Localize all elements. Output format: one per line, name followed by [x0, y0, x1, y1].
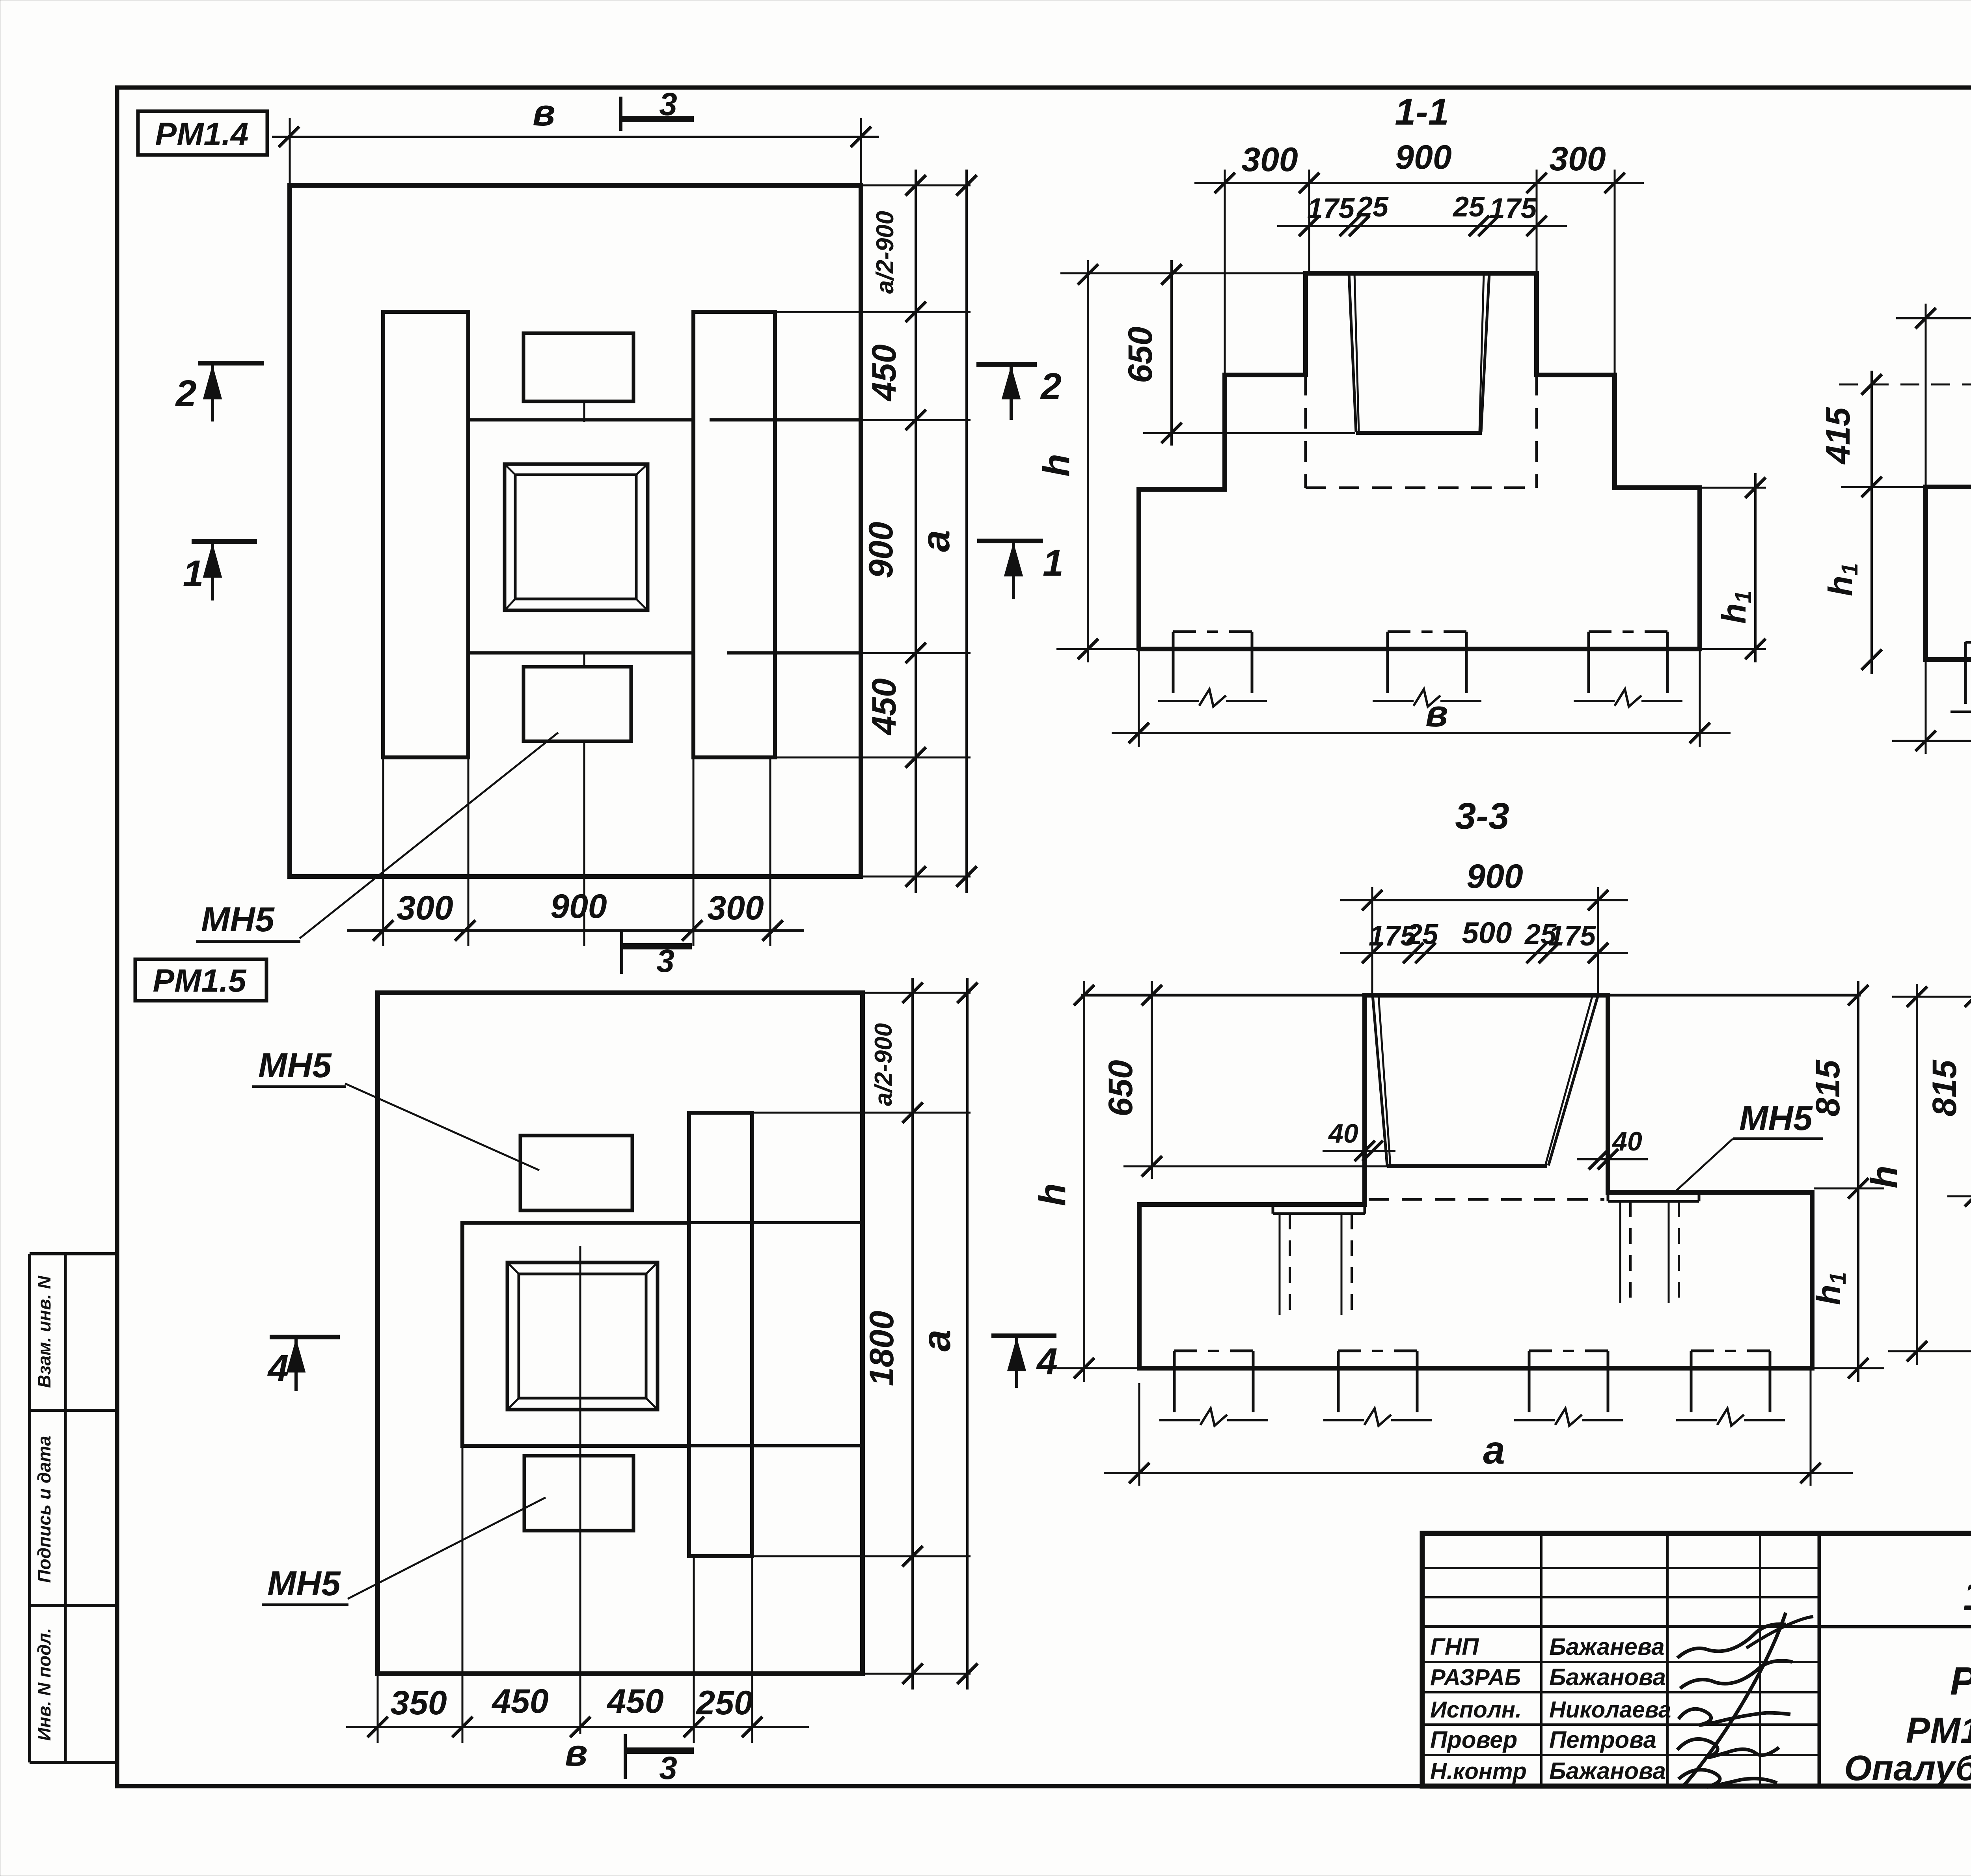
- svg-text:450: 450: [865, 344, 903, 402]
- svg-text:25: 25: [1406, 919, 1438, 950]
- svg-text:650: 650: [1102, 1060, 1140, 1117]
- plan PM1.5 upper embed plate MH5: [520, 1136, 632, 1210]
- plan PM1.4 middle band edges: [468, 420, 971, 653]
- section 3-3 title: [1455, 795, 1509, 837]
- section 3-3 hanging piles right: [1620, 1201, 1679, 1303]
- svg-text:250: 250: [695, 1684, 753, 1722]
- svg-text:РМ1.4: РМ1.4: [155, 116, 249, 152]
- left attribute strip: [30, 1254, 117, 1762]
- svg-text:900: 900: [862, 522, 900, 578]
- section 3-3 socket cavity: [1373, 995, 1598, 1166]
- svg-text:1.411 1-2/91.5м-8: 1.411 1-2/91.5м-8: [1963, 1572, 1971, 1619]
- svg-text:ГНП: ГНП: [1430, 1634, 1479, 1660]
- svg-text:25: 25: [1356, 191, 1389, 223]
- section 3-3 dim h: [1032, 981, 1139, 1382]
- svg-text:Бажанова: Бажанова: [1549, 1664, 1666, 1690]
- section 3-3 dim 175,25,500,25,175: [1340, 916, 1628, 963]
- section 1-1 dim b bottom: [1112, 651, 1731, 747]
- section 3-3 dim h1 right: [1810, 1188, 1884, 1382]
- svg-text:Исполн.: Исполн.: [1430, 1697, 1522, 1723]
- title block document number cell: [1819, 1572, 1971, 1627]
- svg-text:300: 300: [1549, 140, 1606, 178]
- dimension b top of PM1.4: [272, 92, 879, 185]
- section mark 1 right: [977, 541, 1064, 599]
- section 3-3 dim 40 left: [1323, 1119, 1395, 1161]
- svg-text:900: 900: [550, 888, 607, 925]
- section 1-1 pile heads: [1158, 632, 1682, 707]
- section 3-3 body outline: [1139, 995, 1812, 1368]
- section 1-1 body outline: [1139, 273, 1700, 649]
- section 3-3 embed plate MH5 left: [1273, 1205, 1365, 1214]
- section 4-4 dim h: [1863, 984, 1971, 1365]
- section 1-1 dim h1: [1701, 473, 1766, 662]
- svg-text:Провер: Провер: [1430, 1727, 1517, 1753]
- svg-text:Бажанева: Бажанева: [1549, 1634, 1665, 1660]
- section 3-3 hidden line: [1369, 1198, 1604, 1201]
- section mark 4 right: [991, 1336, 1058, 1388]
- MH5 label PM1.4: [196, 733, 558, 942]
- svg-text:450: 450: [606, 1682, 664, 1720]
- svg-text:h: h: [1032, 1183, 1073, 1206]
- section 2-2 dim 415: [1819, 371, 1971, 497]
- section 1-1 title: [1395, 91, 1449, 133]
- PM1.5 overall dimension a: [915, 978, 978, 1690]
- svg-text:450: 450: [491, 1682, 549, 1720]
- section 4-4 extension lines: [1892, 887, 1971, 1196]
- PM1.4 bottom dimension chain 300,900,300: [347, 759, 804, 946]
- section 3-3 dim 650: [1102, 981, 1387, 1179]
- svg-text:1-1: 1-1: [1395, 91, 1449, 133]
- section 2-2 pile heads: [1951, 642, 1971, 717]
- section 2-2 body outline: [1926, 384, 1971, 660]
- svg-text:МН5: МН5: [267, 1564, 341, 1603]
- plan PM1.4 left pile bar: [383, 312, 468, 757]
- svg-text:Ростверк: Ростверк: [1950, 1659, 1971, 1703]
- MH5 label section 3-3: [1676, 1098, 1823, 1191]
- MH5 label upper PM1.5: [252, 1046, 539, 1170]
- section 2-2 dim b bottom: [1892, 661, 1971, 754]
- svg-text:500: 500: [1462, 916, 1512, 950]
- svg-text:Опалубочный чертеж: Опалубочный чертеж: [1844, 1749, 1971, 1788]
- svg-text:40: 40: [1611, 1126, 1642, 1156]
- section mark 4 left: [267, 1337, 340, 1391]
- svg-text:3: 3: [659, 1750, 677, 1786]
- section 3-3 dim 900: [1340, 858, 1628, 910]
- title block signature table: [1422, 1533, 1819, 1786]
- section 3-3 dim a bottom: [1104, 1370, 1853, 1486]
- svg-text:h: h: [1036, 454, 1077, 477]
- section 1-1 extension lines: [1225, 170, 1615, 375]
- svg-text:300: 300: [397, 889, 453, 927]
- plan PM1.5 right pile bar: [689, 1113, 752, 1556]
- svg-text:2: 2: [1040, 366, 1062, 407]
- section 1-1 dim 650: [1121, 260, 1355, 446]
- section mark 2 right: [976, 364, 1062, 420]
- svg-text:a/2-900: a/2-900: [870, 1023, 897, 1106]
- svg-text:Подпись и дата: Подпись и дата: [34, 1436, 54, 1583]
- title block name cell: [1844, 1627, 1971, 1788]
- plan PM1.5 lower embed plate MH5: [524, 1456, 633, 1531]
- PM1.5 bottom dimension chain 350,450,450,250: [346, 1448, 809, 1743]
- svg-text:Николаева: Николаева: [1549, 1697, 1671, 1723]
- section 2-2 dim b/2: [1896, 282, 1971, 492]
- svg-text:МН5: МН5: [1739, 1098, 1813, 1138]
- section flag 3 top: [621, 86, 694, 131]
- section 3-3 extension lines top: [1081, 887, 1861, 995]
- svg-text:450: 450: [865, 678, 903, 736]
- section flag 3 bottom PM1.4: [622, 930, 692, 979]
- plan PM1.5 column socket: [507, 1262, 658, 1410]
- svg-text:3: 3: [656, 943, 674, 979]
- svg-text:a: a: [1483, 1428, 1505, 1472]
- section 4-4 dim 815: [1926, 984, 1971, 1208]
- svg-text:300: 300: [1241, 141, 1298, 179]
- section 2-2 dim h1: [1822, 487, 1926, 674]
- svg-text:4: 4: [267, 1347, 289, 1389]
- svg-text:в: в: [1425, 693, 1448, 735]
- svg-text:в: в: [533, 92, 555, 134]
- section 1-1 socket cavity: [1349, 273, 1489, 433]
- svg-text:a: a: [914, 530, 958, 552]
- svg-text:350: 350: [390, 1684, 447, 1722]
- svg-text:РМ1.5: РМ1.5: [153, 963, 247, 999]
- plan PM1.4 right pile bar: [693, 312, 775, 757]
- svg-text:Н.контр: Н.контр: [1430, 1759, 1527, 1784]
- PM1.5 right dimension chain a/2-900,1800: [754, 978, 971, 1690]
- plan PM1.4 column socket: [505, 464, 648, 610]
- section 1-1 dim 300,900,300: [1194, 138, 1644, 193]
- svg-text:Инв. N подл.: Инв. N подл.: [34, 1628, 54, 1741]
- PM1.4 right dimension chain a/2-900,450,900,450: [775, 170, 971, 893]
- svg-text:4: 4: [1036, 1341, 1058, 1382]
- svg-text:3-3: 3-3: [1455, 795, 1509, 837]
- svg-text:815: 815: [1926, 1059, 1964, 1117]
- section 1-1 dim h: [1036, 260, 1306, 662]
- svg-text:РАЗРАБ: РАЗРАБ: [1430, 1665, 1521, 1690]
- section 1-1 dim 175,25,25,175: [1277, 191, 1567, 236]
- svg-text:900: 900: [1395, 138, 1452, 176]
- section mark 1 left: [183, 541, 257, 600]
- svg-text:415: 415: [1819, 407, 1857, 465]
- MH5 label lower PM1.5: [262, 1497, 546, 1605]
- svg-text:175: 175: [1548, 920, 1596, 952]
- PM1.4 overall dimension a: [914, 170, 977, 893]
- plan PM1.4 lower embed plate MH5: [523, 667, 631, 741]
- section 3-3 embed plate MH5 right: [1608, 1192, 1699, 1201]
- section 3-3 dim 815 right: [1809, 981, 1884, 1202]
- svg-text:Взам. инв. N: Взам. инв. N: [34, 1276, 54, 1388]
- svg-text:650: 650: [1121, 326, 1159, 383]
- svg-text:3: 3: [659, 86, 677, 122]
- svg-text:1: 1: [1043, 542, 1064, 584]
- plan PM1.4 centerline: [583, 401, 585, 946]
- svg-text:175: 175: [1307, 193, 1355, 224]
- svg-text:300: 300: [707, 889, 764, 927]
- svg-text:МН5: МН5: [258, 1046, 332, 1085]
- section 3-3 dim 40 right: [1577, 1126, 1648, 1169]
- title block outer: [1422, 1533, 1971, 1786]
- svg-text:815: 815: [1809, 1059, 1847, 1117]
- svg-text:a/2-900: a/2-900: [872, 211, 899, 294]
- plan PM1.5 middle block: [462, 1223, 863, 1446]
- plan PM1.5 centerline: [579, 1246, 581, 1734]
- section flag 3 bottom PM1.5: [625, 1734, 694, 1786]
- svg-text:40: 40: [1328, 1119, 1358, 1149]
- plan PM1.5 outer slab outline: [378, 993, 863, 1674]
- svg-text:1800: 1800: [863, 1311, 901, 1386]
- svg-text:Петрова: Петрова: [1549, 1727, 1656, 1753]
- section 1-1 hidden lines: [1306, 375, 1537, 488]
- svg-text:в: в: [565, 1732, 587, 1774]
- svg-text:900: 900: [1466, 858, 1523, 895]
- section 3-3 hanging piles left: [1280, 1214, 1352, 1315]
- section mark 2 left: [175, 363, 264, 421]
- svg-text:МН5: МН5: [201, 900, 275, 939]
- signatures: [1677, 1613, 1813, 1787]
- svg-text:175: 175: [1489, 193, 1537, 224]
- svg-text:h: h: [1863, 1166, 1905, 1188]
- b label bottom PM1.5: [565, 1732, 587, 1774]
- svg-text:1: 1: [183, 553, 204, 595]
- svg-text:Бажанова: Бажанова: [1549, 1758, 1666, 1784]
- label PM1.4: [138, 111, 267, 155]
- plan PM1.4 outer slab outline: [290, 185, 861, 876]
- svg-text:a: a: [915, 1330, 959, 1352]
- label PM1.5: [135, 959, 266, 1001]
- plan PM1.4 upper embed plate MH5: [523, 333, 633, 401]
- svg-text:РМ1. 4и РМ1. 5.: РМ1. 4и РМ1. 5.: [1906, 1710, 1971, 1751]
- svg-text:25: 25: [1452, 191, 1485, 223]
- section 3-3 pile heads: [1159, 1351, 1785, 1426]
- svg-text:2: 2: [175, 373, 197, 414]
